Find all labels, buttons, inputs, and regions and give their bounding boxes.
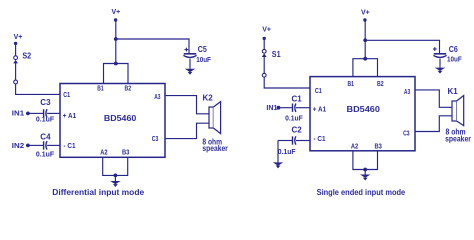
svg-text:IN1: IN1 (266, 105, 277, 112)
svg-text:B2: B2 (377, 81, 384, 88)
svg-text:K1: K1 (448, 87, 459, 96)
svg-text:A3: A3 (154, 94, 160, 101)
wire (278, 140, 293, 142)
ground (110, 181, 120, 184)
svg-text:Differential input mode: Differential input mode (52, 187, 144, 197)
wire (30, 112, 44, 114)
junction (363, 38, 367, 42)
svg-text:0.1uF: 0.1uF (36, 117, 55, 124)
svg-text:10uF: 10uF (196, 55, 211, 64)
wire (103, 157, 128, 175)
svg-text:IN1: IN1 (12, 111, 24, 118)
wire (165, 123, 209, 138)
wire (415, 116, 452, 132)
svg-text:0.1uF: 0.1uF (285, 116, 303, 123)
svg-text:C1: C1 (315, 88, 322, 95)
svg-text:B2: B2 (125, 86, 132, 93)
svg-text:C5: C5 (198, 45, 207, 54)
svg-text:B3: B3 (375, 144, 382, 151)
wire (277, 141, 279, 163)
svg-text:B3: B3 (122, 150, 129, 157)
svg-text:K2: K2 (203, 93, 214, 102)
svg-text:- C1: - C1 (64, 143, 76, 150)
svg-text:C6: C6 (449, 45, 458, 54)
svg-text:IN2: IN2 (12, 143, 24, 150)
wire (116, 39, 189, 54)
wire (115, 21, 117, 40)
switch S1 (262, 49, 266, 53)
speaker K2 (209, 107, 213, 128)
svg-text:BD5460: BD5460 (347, 104, 381, 114)
svg-text:Single ended input mode: Single ended input mode (317, 187, 406, 197)
svg-text:0.1uF: 0.1uF (36, 152, 55, 159)
svg-text:S1: S1 (272, 50, 281, 59)
wire (16, 84, 60, 95)
svg-text:C2: C2 (292, 126, 303, 135)
wire (165, 96, 209, 114)
power V+ terminal (114, 18, 117, 21)
power V+ terminal (363, 18, 366, 21)
junction (114, 62, 118, 66)
svg-text:+ A1: + A1 (63, 113, 76, 120)
svg-text:A2: A2 (100, 150, 107, 157)
wire (296, 140, 310, 142)
svg-text:C3: C3 (403, 131, 410, 138)
svg-text:C1: C1 (292, 95, 303, 104)
capacitor C1 (292, 104, 294, 112)
svg-text:BD5460: BD5460 (104, 113, 137, 123)
svg-text:C1: C1 (63, 92, 70, 99)
svg-text:V+: V+ (361, 10, 370, 17)
svg-text:V+: V+ (14, 34, 23, 41)
capacitor C5 (185, 49, 189, 51)
wire (353, 151, 378, 170)
wire (353, 59, 378, 77)
capacitor C2 (292, 136, 294, 144)
wire (364, 170, 366, 175)
svg-text:C3: C3 (152, 136, 159, 143)
wire (47, 112, 60, 114)
wire (189, 59, 191, 69)
wire (365, 40, 439, 54)
wire (264, 77, 310, 88)
svg-text:B1: B1 (97, 86, 103, 93)
svg-text:A3: A3 (404, 89, 410, 96)
svg-text:C3: C3 (40, 98, 51, 107)
wire (263, 38, 265, 49)
ground (435, 68, 445, 71)
wire (47, 144, 60, 146)
svg-text:- C1: - C1 (314, 136, 326, 143)
wire (30, 144, 44, 146)
wire (296, 107, 310, 109)
wire (280, 107, 292, 109)
junction (363, 168, 367, 172)
speaker K1 (452, 101, 457, 121)
svg-text:0.1uF: 0.1uF (278, 149, 296, 156)
wire (104, 64, 129, 84)
ground (360, 175, 370, 178)
svg-text:C4: C4 (40, 132, 51, 141)
wire (15, 43, 17, 56)
capacitor C4 (43, 141, 45, 149)
svg-text:V+: V+ (112, 9, 121, 16)
wire (115, 39, 117, 64)
switch S2 (14, 56, 18, 60)
junction (114, 174, 118, 178)
wire (415, 90, 452, 107)
svg-text:+ A1: + A1 (313, 107, 326, 114)
svg-text:speaker: speaker (202, 144, 227, 153)
wire (114, 175, 116, 181)
svg-text:B1: B1 (348, 81, 354, 88)
wire (364, 21, 366, 41)
junction (114, 37, 118, 41)
ground (185, 69, 195, 72)
op-amp U1 BD5460 (60, 84, 165, 158)
ground (273, 162, 283, 165)
svg-text:S2: S2 (22, 51, 31, 60)
svg-text:A2: A2 (351, 144, 358, 151)
svg-text:V+: V+ (262, 26, 271, 33)
junction (363, 57, 367, 61)
svg-text:10uF: 10uF (447, 54, 462, 63)
capacitor C3 (43, 109, 45, 117)
wire (439, 59, 441, 68)
svg-text:speaker: speaker (445, 135, 471, 144)
op-amp U2 BD5460 (310, 77, 415, 151)
wire (364, 40, 366, 58)
capacitor C6 (433, 48, 437, 50)
